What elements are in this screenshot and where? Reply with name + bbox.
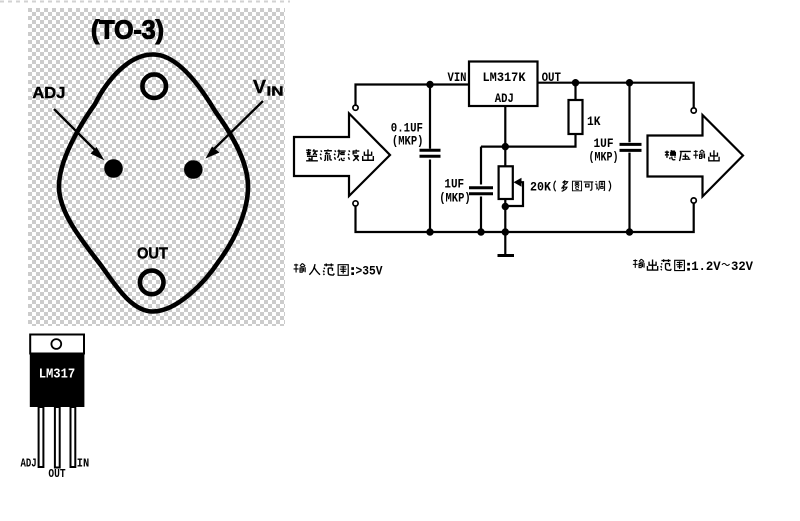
svg-text:1UF: 1UF — [444, 177, 464, 192]
svg-text:>35V: >35V — [356, 264, 383, 279]
svg-text:(MKP): (MKP) — [392, 134, 424, 149]
svg-text:1.2V: 1.2V — [691, 259, 721, 274]
svg-text:LM317: LM317 — [39, 367, 75, 383]
svg-text:ADJ: ADJ — [32, 85, 65, 102]
svg-text:OUT: OUT — [48, 467, 65, 481]
svg-text:(MKP): (MKP) — [439, 191, 471, 206]
svg-text:IN: IN — [267, 84, 284, 99]
svg-text:32V: 32V — [731, 259, 753, 274]
svg-text:OUT: OUT — [137, 246, 168, 263]
svg-text:IN: IN — [77, 457, 89, 471]
svg-text:ADJ: ADJ — [495, 91, 514, 106]
svg-text:1K: 1K — [587, 114, 601, 129]
svg-text:20K: 20K — [530, 180, 551, 195]
svg-text:(TO-3): (TO-3) — [91, 15, 164, 45]
svg-text:(MKP): (MKP) — [589, 150, 619, 165]
svg-text:ADJ: ADJ — [21, 457, 37, 471]
svg-text:VIN: VIN — [448, 70, 467, 85]
svg-text:OUT: OUT — [542, 70, 562, 85]
svg-text:LM317K: LM317K — [483, 70, 526, 85]
svg-text:V: V — [253, 77, 266, 97]
